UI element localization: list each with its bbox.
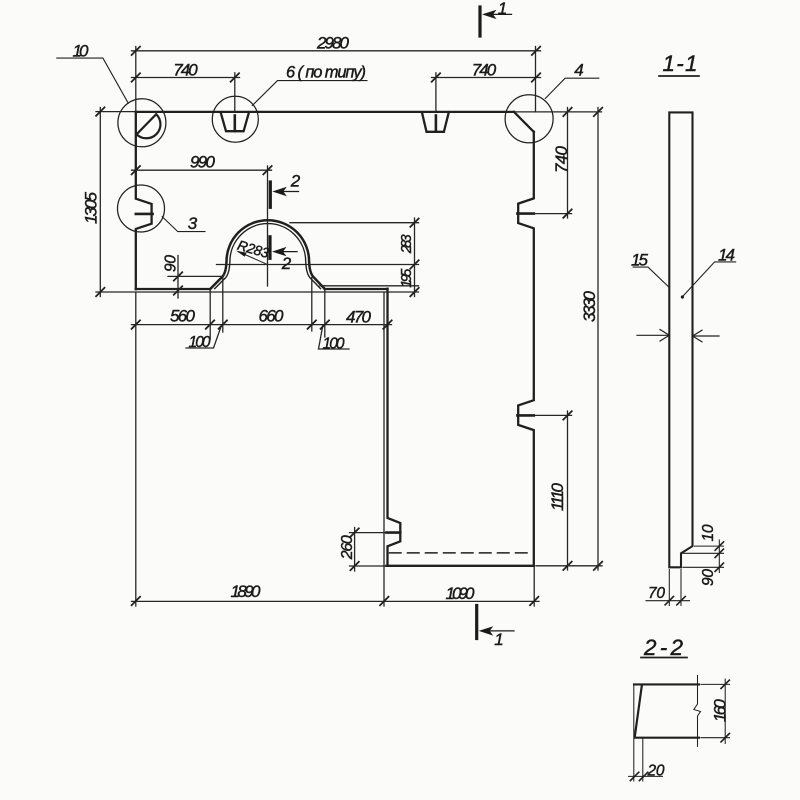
R283 radius leader with arrow <box>236 251 268 265</box>
1-1 panel outline <box>669 112 692 567</box>
dim line 2980 <box>132 50 541 52</box>
1-1 dim line 70 <box>646 600 690 602</box>
extension up from top-left corner <box>135 47 137 112</box>
svg-text:90: 90 <box>700 569 717 586</box>
pier notch center mark <box>387 531 401 534</box>
dim line 740 left <box>132 77 240 79</box>
svg-text:6 ( по типу): 6 ( по типу) <box>286 64 366 82</box>
detail circle 3 (left-edge notch) <box>118 185 165 232</box>
leader 15 <box>633 267 669 287</box>
section mark 2 top <box>270 182 298 207</box>
arch outer curve <box>210 220 325 289</box>
1-1 ticks <box>665 542 723 605</box>
chamfer-top extension for 90 dim <box>168 275 223 277</box>
svg-text:2980: 2980 <box>316 34 350 53</box>
svg-text:2-2: 2-2 <box>643 635 683 660</box>
extension below left foot chamfer bottom <box>209 291 211 340</box>
ticks 3330 <box>594 108 602 570</box>
dim line 1110 <box>567 411 569 570</box>
short thin extension right of arch foot <box>320 285 419 287</box>
svg-text:15: 15 <box>631 250 649 269</box>
right-edge notch 2 center mark <box>517 414 533 417</box>
svg-text:2: 2 <box>290 171 301 190</box>
shelf right segment <box>325 288 388 290</box>
2-2 left face thin <box>633 684 635 781</box>
svg-text:1890: 1890 <box>231 582 262 601</box>
dimension ticks (45 deg slashes) <box>96 47 602 606</box>
svg-text:260: 260 <box>339 535 356 560</box>
dim line 740 right <box>432 77 541 79</box>
svg-text:740: 740 <box>173 61 198 80</box>
dashed hidden line above bottom edge <box>390 552 534 554</box>
extension from right notch 2 center to 1110 dim <box>534 414 572 416</box>
leader for label 3 <box>162 217 205 232</box>
detail circle 4 (top-right corner) <box>505 95 553 143</box>
ticks 283/195 <box>410 219 418 297</box>
top edge notch 1 (trapez groove) <box>221 112 249 131</box>
dim line 1305 <box>99 108 101 297</box>
svg-text:1090: 1090 <box>446 584 476 603</box>
ticks 1305 <box>96 107 104 296</box>
2-2 ticks <box>630 680 729 781</box>
svg-text:990: 990 <box>190 152 216 171</box>
notch center thick marks <box>136 116 534 533</box>
svg-text:100: 100 <box>189 334 211 351</box>
svg-text:3330: 3330 <box>580 290 599 322</box>
ticks 260 <box>350 528 358 570</box>
2-2 bottom face <box>635 737 699 739</box>
ticks 990 <box>132 166 272 174</box>
extension below right foot chamfer bottom <box>324 291 326 338</box>
bottom edge extension left for 260 dim <box>350 565 387 567</box>
detail circle 10 (top-left corner) <box>118 99 166 147</box>
svg-text:283: 283 <box>399 234 415 254</box>
svg-text:560: 560 <box>170 307 196 326</box>
top notch 1 center mark <box>234 116 237 132</box>
ticks 90 <box>174 272 182 295</box>
leader 14 with end dot <box>682 262 735 297</box>
ticks 740 right <box>432 73 541 81</box>
ticks 740 vertical <box>563 108 571 218</box>
long pier extension down to bottom dim <box>383 292 385 606</box>
svg-text:2: 2 <box>281 254 292 273</box>
svg-text:160: 160 <box>710 699 729 723</box>
1305 top extension <box>96 111 136 113</box>
svg-text:470: 470 <box>346 307 372 326</box>
arch centre vertical extension (990) <box>267 166 269 286</box>
arch top extension to 283 dim <box>290 222 419 224</box>
leader for label 10 <box>57 58 129 103</box>
leader for label 4 <box>545 78 599 98</box>
ticks 740 left <box>132 73 239 81</box>
pier left edge with notch <box>388 289 401 566</box>
svg-text:1: 1 <box>494 630 503 649</box>
svg-text:1110: 1110 <box>548 482 567 511</box>
top notch 2 center mark <box>435 116 438 132</box>
2-2 dim line 20 <box>629 775 663 777</box>
2-2 tapered wedge edge <box>635 685 642 737</box>
long left extension from shelf to bottom dim <box>135 292 137 606</box>
dim line 260 <box>354 528 356 572</box>
left-edge notch center mark <box>136 213 153 216</box>
ticks 2980 <box>132 47 541 55</box>
1-1 thickness arrow left (open) <box>637 334 668 336</box>
svg-text:3: 3 <box>188 214 198 233</box>
right-edge notch 1 center mark <box>517 212 533 215</box>
svg-text:740: 740 <box>552 145 571 173</box>
svg-text:740: 740 <box>472 61 497 80</box>
extension below right foot chamfer top <box>311 278 313 332</box>
section mark 2 bottom <box>270 237 297 258</box>
svg-text:660: 660 <box>259 307 285 326</box>
extension from pier notch center to 260 dim <box>350 532 387 534</box>
leader 100 right <box>319 326 350 350</box>
extension below left foot chamfer top <box>222 278 224 333</box>
detail circle 6 (top notch) <box>212 96 258 142</box>
extension from bottom-right corner down <box>533 566 535 606</box>
left edge with notch <box>136 112 152 289</box>
svg-text:195: 195 <box>399 268 415 288</box>
1-1 extension lines for 10/90 dims <box>683 546 724 567</box>
dim line 740 vertical right <box>567 108 569 219</box>
dim line 283/195 <box>414 218 416 297</box>
arch springing horizontal extension (283/195 split) <box>217 264 419 266</box>
right edge with two notches <box>518 132 534 566</box>
extension from top notch 1 down through groove <box>234 73 236 112</box>
top edge of panel <box>136 111 514 113</box>
corner detail inside circle 10: half-disc with diagonal chord <box>137 114 161 138</box>
1-1 title underline <box>659 75 699 77</box>
ticks 560-660-470 <box>132 320 392 328</box>
2-2 dim line 160 <box>724 679 726 744</box>
bottom edge <box>386 565 533 567</box>
svg-text:20: 20 <box>647 762 665 779</box>
ticks 1890-1090 <box>132 597 539 605</box>
ticks 1110 <box>563 411 571 570</box>
svg-text:10: 10 <box>73 42 90 61</box>
2-2 right break line with zigzag <box>694 676 701 747</box>
dim line 3330 <box>597 108 599 571</box>
top edge notch 2 (trapez groove) <box>422 112 449 132</box>
1-1 extensions for 70 dim <box>669 570 681 606</box>
svg-text:100: 100 <box>323 335 345 352</box>
dim line 1890-1090 <box>132 600 540 602</box>
leader 100 left <box>186 325 222 348</box>
2-2 wedge extension down <box>642 739 644 781</box>
top edge extension to the right (thin continuation) <box>514 111 602 113</box>
section mark 1 bottom <box>477 606 514 639</box>
dim line 990 <box>132 169 272 171</box>
svg-text:1-1: 1-1 <box>663 51 698 76</box>
dim line 90 <box>177 256 179 299</box>
svg-text:10: 10 <box>700 524 717 541</box>
2-2 extensions for 160 dim <box>701 684 730 737</box>
arch inner curve <box>215 224 321 289</box>
shelf left segment <box>136 288 210 290</box>
1-1 dim line 10/90 <box>718 540 720 573</box>
2-2 title underline <box>641 657 687 659</box>
svg-text:70: 70 <box>648 585 665 602</box>
svg-text:90: 90 <box>163 255 180 272</box>
2-2 top face <box>634 683 699 685</box>
section mark 1 top <box>480 7 512 36</box>
svg-text:1305: 1305 <box>82 191 101 224</box>
svg-text:4: 4 <box>574 60 583 79</box>
svg-text:1: 1 <box>498 0 507 18</box>
extension from top notch 2 <box>435 73 437 112</box>
1-1 thickness arrow right (open) <box>695 335 720 337</box>
extension from bottom-right corner to 3330 dim <box>536 565 602 567</box>
long horizontal extension under shelf (195 dim) <box>96 291 419 293</box>
top-right chamfered corner <box>514 112 534 132</box>
svg-text:14: 14 <box>718 245 735 264</box>
extension from right notch 1 center to 740 dim <box>534 213 572 215</box>
dim line 560-660-470 <box>132 324 392 326</box>
extension up from top-right corner <box>535 47 537 112</box>
leader for label 6 <box>252 81 367 106</box>
